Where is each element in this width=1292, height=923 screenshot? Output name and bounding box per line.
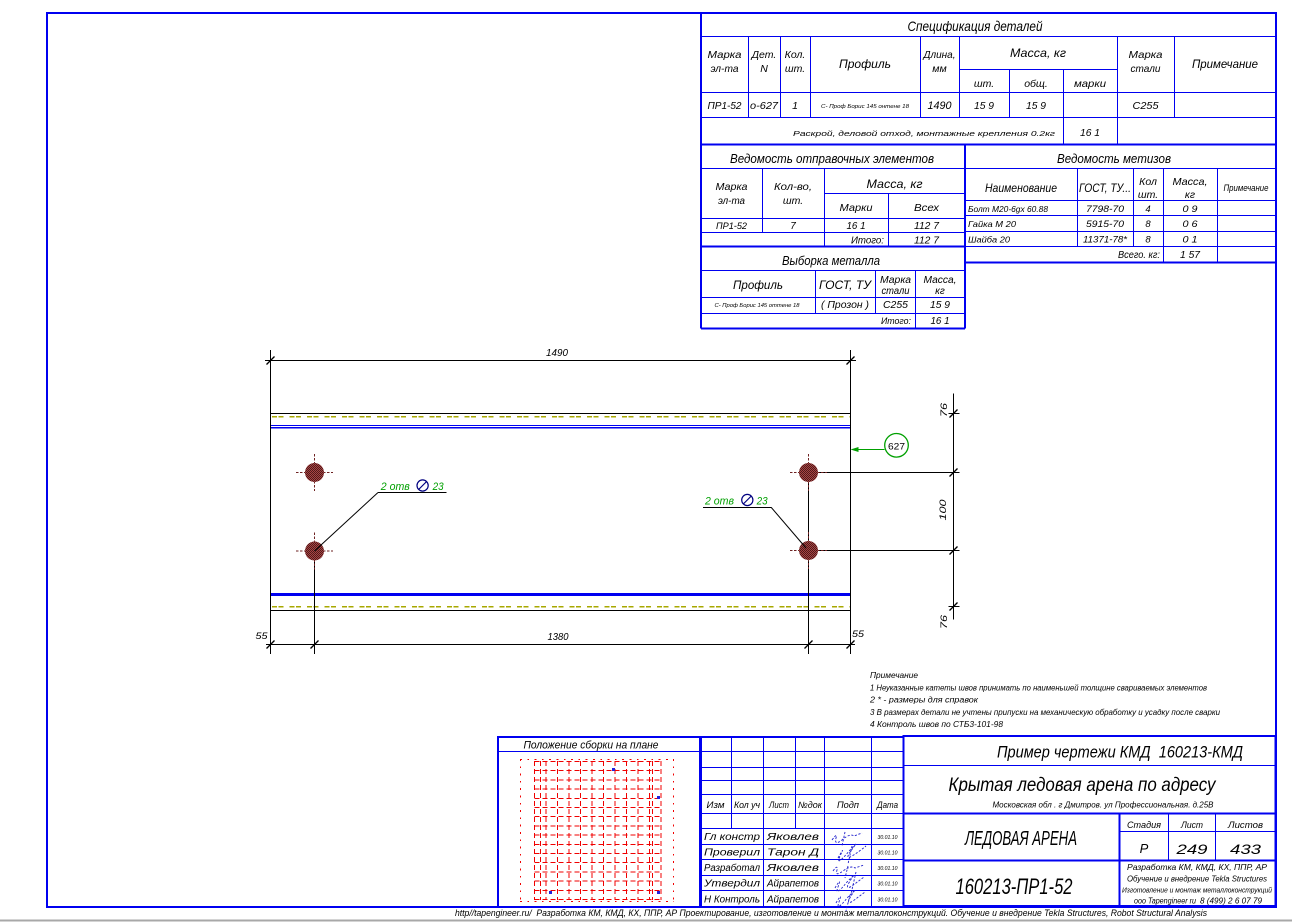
svg-text:23: 23 <box>432 481 445 493</box>
svg-text:кг: кг <box>1185 189 1195 201</box>
svg-text:ЛЕДОВАЯ АРЕНА: ЛЕДОВАЯ АРЕНА <box>964 828 1077 850</box>
svg-text:Кол: Кол <box>1139 176 1157 188</box>
svg-text:0 9: 0 9 <box>1183 204 1199 215</box>
svg-text:8: 8 <box>1145 235 1151 246</box>
svg-text:Крытая ледовая арена по адресу: Крытая ледовая арена по адресу <box>949 775 1217 796</box>
svg-text:Примечание: Примечание <box>870 671 919 680</box>
svg-text:Масса, кг: Масса, кг <box>867 179 923 191</box>
svg-text:100: 100 <box>938 499 949 521</box>
svg-text:1490: 1490 <box>928 100 953 112</box>
svg-text:кг: кг <box>935 286 945 297</box>
svg-text:Марка: Марка <box>1129 49 1163 61</box>
svg-text:Дет.: Дет. <box>751 49 777 61</box>
svg-text:общ.: общ. <box>1024 78 1048 90</box>
svg-text:http//tapengineer.ru/ Разрабо: http//tapengineer.ru/ Разработка КМ, КМД… <box>455 908 1207 919</box>
svg-text:Примечание: Примечание <box>1192 59 1258 71</box>
svg-text:112 7: 112 7 <box>914 236 939 247</box>
svg-text:Дата: Дата <box>876 800 898 810</box>
svg-text:Положение сборки на плане: Положение сборки на плане <box>524 740 659 752</box>
svg-text:Изм: Изм <box>707 800 725 810</box>
svg-text:Всего. кг:: Всего. кг: <box>1118 250 1160 261</box>
svg-text:3 В размерах детали не учтены: 3 В размерах детали не учтены припуски н… <box>870 708 1221 717</box>
svg-text:Марка: Марка <box>716 181 748 193</box>
svg-text:ПР1-52: ПР1-52 <box>716 221 748 232</box>
svg-text:Ведомость метизов: Ведомость метизов <box>1057 151 1171 166</box>
svg-text:30.01.10: 30.01.10 <box>878 882 899 888</box>
svg-text:Лист: Лист <box>1180 820 1203 831</box>
svg-text:ооо Tapengineer ru: ооо Tapengineer ru <box>1134 897 1196 906</box>
svg-text:Яковлев: Яковлев <box>766 832 819 843</box>
svg-text:2 отв: 2 отв <box>380 481 410 493</box>
svg-text:ГОСТ, ТУ...: ГОСТ, ТУ... <box>1079 181 1131 195</box>
svg-text:Кол уч: Кол уч <box>734 800 760 810</box>
svg-text:Марка: Марка <box>708 49 742 61</box>
svg-text:7: 7 <box>790 221 796 232</box>
svg-text:16 1: 16 1 <box>931 316 950 327</box>
svg-text:Кол-во,: Кол-во, <box>774 181 812 193</box>
svg-text:мм: мм <box>932 63 946 75</box>
svg-text:марки: марки <box>1074 78 1106 90</box>
svg-text:Изготовление и монтаж металлок: Изготовление и монтаж металлоконструкций <box>1122 886 1273 895</box>
svg-text:( Прозон ): ( Прозон ) <box>821 300 869 311</box>
svg-text:Масса, кг: Масса, кг <box>1010 48 1066 60</box>
svg-text:Профиль: Профиль <box>839 59 891 71</box>
svg-text:№док: №док <box>798 800 823 810</box>
svg-text:Марки: Марки <box>840 202 873 214</box>
svg-text:15 9: 15 9 <box>974 100 994 112</box>
svg-text:о-627: о-627 <box>750 100 779 112</box>
svg-text:Проверил: Проверил <box>704 848 760 859</box>
svg-text:Профиль: Профиль <box>733 280 783 292</box>
svg-text:4: 4 <box>1145 204 1150 215</box>
svg-text:76: 76 <box>939 614 950 629</box>
svg-text:55: 55 <box>852 629 865 640</box>
svg-text:ПР1-52: ПР1-52 <box>708 100 742 112</box>
svg-text:30.01.10: 30.01.10 <box>878 835 899 841</box>
svg-text:8: 8 <box>1145 219 1151 230</box>
svg-text:стали: стали <box>882 286 910 297</box>
svg-text:1: 1 <box>792 100 798 112</box>
svg-text:ГОСТ, ТУ: ГОСТ, ТУ <box>819 280 873 292</box>
svg-text:шт.: шт. <box>785 63 805 75</box>
svg-text:Яковлев: Яковлев <box>766 863 819 874</box>
svg-text:Шайба 20: Шайба 20 <box>968 235 1010 245</box>
svg-text:Гл констр: Гл констр <box>704 832 761 843</box>
svg-text:5915-70: 5915-70 <box>1086 219 1125 230</box>
svg-text:Марка: Марка <box>880 275 911 286</box>
svg-text:Московская обл . г Дмитров. у: Московская обл . г Дмитров. ул Профессио… <box>993 800 1214 810</box>
svg-text:Подп: Подп <box>837 800 859 810</box>
svg-text:Гайка М 20: Гайка М 20 <box>968 219 1016 229</box>
svg-text:С255: С255 <box>1133 100 1159 112</box>
svg-text:эл-та: эл-та <box>718 195 745 207</box>
svg-text:249: 249 <box>1175 842 1208 857</box>
svg-text:8 (499) 2 6 07 79: 8 (499) 2 6 07 79 <box>1200 897 1263 906</box>
svg-text:Листов: Листов <box>1227 820 1263 831</box>
svg-text:112 7: 112 7 <box>914 221 939 232</box>
svg-text:Итого:: Итого: <box>851 236 884 247</box>
svg-text:Пример чертежи КМД 160213-КМД: Пример чертежи КМД 160213-КМД <box>997 743 1243 762</box>
svg-text:30.01.10: 30.01.10 <box>878 866 899 872</box>
svg-text:Айрапетов: Айрапетов <box>766 879 819 890</box>
svg-text:Всех: Всех <box>914 202 940 214</box>
svg-text:16 1: 16 1 <box>847 221 866 232</box>
svg-text:1 57: 1 57 <box>1180 250 1200 261</box>
svg-text:30.01.10: 30.01.10 <box>878 851 899 857</box>
svg-text:433: 433 <box>1230 842 1262 857</box>
svg-text:Выборка металла: Выборка металла <box>782 253 880 268</box>
svg-text:N: N <box>760 63 768 75</box>
svg-text:1490: 1490 <box>546 348 568 359</box>
svg-text:Тарон Д: Тарон Д <box>767 848 819 859</box>
svg-text:Р: Р <box>1140 841 1149 856</box>
svg-text:Спецификация деталей: Спецификация деталей <box>908 18 1043 34</box>
svg-text:шт.: шт. <box>1138 189 1158 201</box>
svg-text:0 1: 0 1 <box>1183 235 1198 246</box>
svg-text:Обучение и внедрение Tekla St: Обучение и внедрение Tekla Structures <box>1127 875 1267 884</box>
svg-text:Итого:: Итого: <box>881 316 911 327</box>
svg-text:Ведомость отправочных элементо: Ведомость отправочных элементов <box>730 151 934 166</box>
svg-text:0 6: 0 6 <box>1183 219 1199 230</box>
svg-text:Масса,: Масса, <box>924 275 957 286</box>
svg-text:2 * - размеры для справок: 2 * - размеры для справок <box>869 696 979 705</box>
svg-text:Стадия: Стадия <box>1127 820 1161 831</box>
svg-text:стали: стали <box>1131 63 1161 75</box>
svg-text:Н Контроль: Н Контроль <box>704 894 760 905</box>
svg-text:Айрапетов: Айрапетов <box>766 894 819 905</box>
svg-text:С- Проф Борис 145 онтене 18: С- Проф Борис 145 онтене 18 <box>821 104 909 110</box>
svg-text:11371-78*: 11371-78* <box>1083 235 1127 246</box>
svg-text:2 отв: 2 отв <box>704 496 734 508</box>
svg-text:шт.: шт. <box>783 195 803 207</box>
svg-text:Утвердил: Утвердил <box>703 879 761 890</box>
svg-text:15 9: 15 9 <box>930 300 950 311</box>
svg-text:4 Контроль швов по СТБ3-101-9: 4 Контроль швов по СТБ3-101-98 <box>870 720 1004 729</box>
svg-text:Наименование: Наименование <box>985 181 1057 195</box>
svg-text:Масса,: Масса, <box>1173 176 1208 188</box>
svg-text:23: 23 <box>756 496 769 508</box>
svg-text:16 1: 16 1 <box>1080 127 1100 139</box>
svg-text:627: 627 <box>888 442 905 453</box>
svg-text:76: 76 <box>939 402 950 417</box>
svg-text:Разработал: Разработал <box>704 862 760 874</box>
svg-text:С- Проф Борис 145 оттене 18: С- Проф Борис 145 оттене 18 <box>715 303 800 309</box>
svg-text:7798-70: 7798-70 <box>1086 204 1125 215</box>
svg-text:С255: С255 <box>883 300 908 311</box>
svg-text:30.01.10: 30.01.10 <box>878 897 899 903</box>
svg-text:Раскрой, деловой отход, монтаж: Раскрой, деловой отход, монтажные крепле… <box>793 130 1056 138</box>
svg-text:15 9: 15 9 <box>1026 100 1046 112</box>
svg-text:эл-та: эл-та <box>711 63 739 75</box>
svg-text:Разработка КМ, КМД, КХ, ППР, А: Разработка КМ, КМД, КХ, ППР, АР <box>1127 862 1267 872</box>
svg-text:55: 55 <box>256 631 269 642</box>
svg-text:Болт М20-6gх 60.88: Болт М20-6gх 60.88 <box>968 205 1049 214</box>
svg-text:1380: 1380 <box>548 632 569 643</box>
svg-text:160213-ПР1-52: 160213-ПР1-52 <box>956 874 1073 899</box>
svg-text:Лист: Лист <box>768 800 789 810</box>
svg-text:1 Неуказанные катеты швов при: 1 Неуказанные катеты швов принимать по н… <box>870 684 1207 693</box>
svg-text:шт.: шт. <box>974 78 994 90</box>
svg-text:Длина,: Длина, <box>923 49 956 61</box>
svg-text:Кол.: Кол. <box>785 49 806 61</box>
svg-text:Примечание: Примечание <box>1224 183 1269 193</box>
